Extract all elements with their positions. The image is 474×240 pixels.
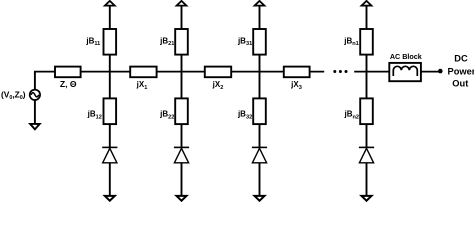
svg-text:jX1: jX1: [136, 80, 148, 91]
svg-text:jB12: jB12: [87, 110, 102, 121]
svg-text:jBn1: jBn1: [343, 36, 359, 47]
svg-text:Power: Power: [448, 67, 474, 77]
svg-text:Out: Out: [452, 79, 468, 89]
svg-text:jB32: jB32: [237, 110, 252, 121]
svg-text:jB22: jB22: [159, 110, 174, 121]
svg-text:AC Block: AC Block: [390, 52, 422, 61]
svg-text:jB31: jB31: [237, 36, 252, 47]
svg-text:jX2: jX2: [212, 80, 224, 91]
svg-text:jX3: jX3: [290, 80, 302, 91]
svg-text:jBn2: jBn2: [343, 110, 359, 121]
svg-text:jB11: jB11: [85, 36, 100, 47]
svg-text:Z, Θ: Z, Θ: [60, 79, 77, 89]
svg-text:(V0,Z0): (V0,Z0): [1, 90, 26, 102]
svg-text:jB21: jB21: [159, 36, 174, 47]
svg-text:DC: DC: [454, 53, 468, 63]
